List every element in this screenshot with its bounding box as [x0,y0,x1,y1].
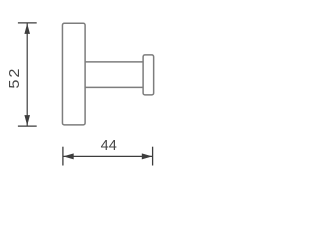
vertical dimension bottom arrowhead [24,115,30,125]
horizontal dimension right arrowhead [142,153,152,159]
vertical dimension bottom tick [18,125,37,127]
wall plate (side view rectangle) [62,23,85,125]
svg-text:5: 5 [7,80,23,89]
vertical dimension top tick [18,22,37,24]
horizontal dimension left tick [62,147,64,166]
horizontal dimension left arrowhead [63,153,73,159]
horizontal dimension right tick [152,147,154,166]
vertical dimension line (52) [26,23,28,125]
label 52 [7,69,23,89]
hook arm top line [85,61,143,63]
svg-text:44: 44 [101,138,117,154]
horizontal dimension line (44) [63,155,153,157]
hook arm bottom line [85,86,143,88]
hook end cap [143,55,154,95]
vertical dimension top arrowhead [24,24,30,34]
svg-text:2: 2 [7,69,23,78]
